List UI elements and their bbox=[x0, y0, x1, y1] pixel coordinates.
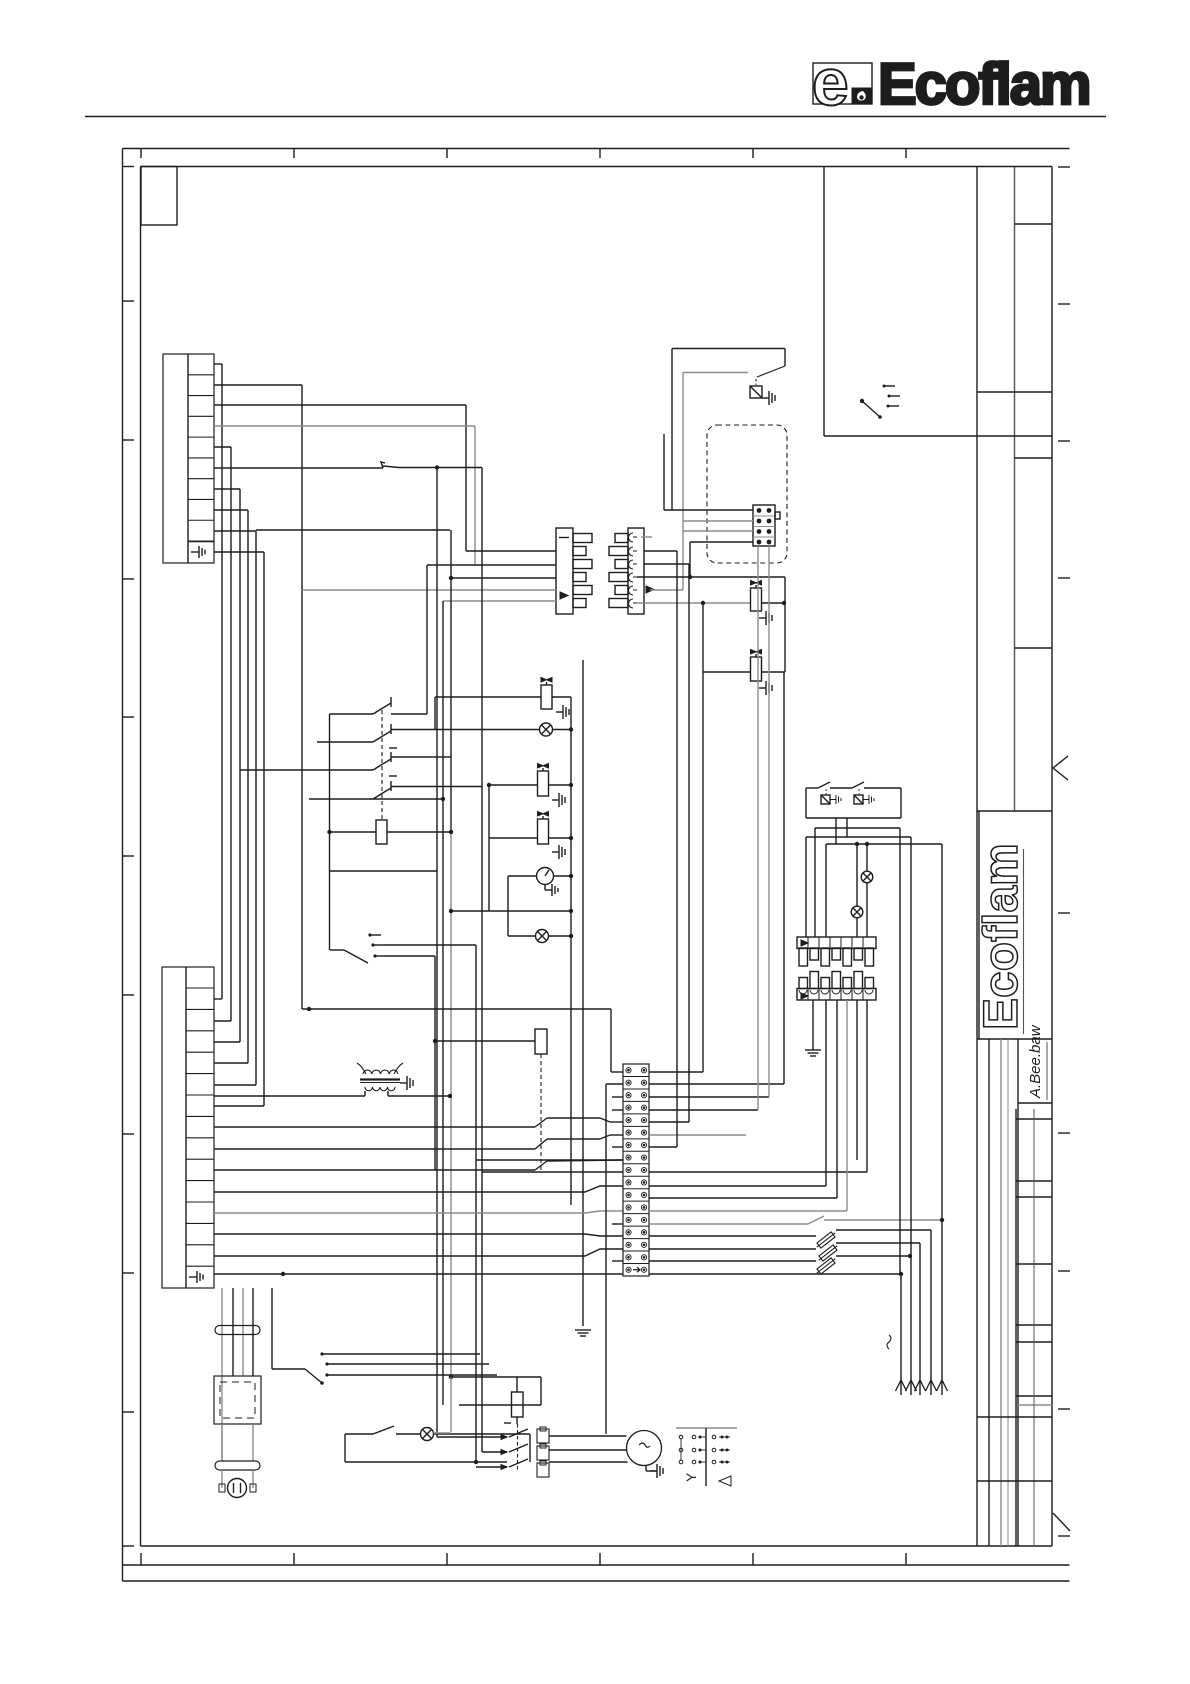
thermal element K3-2 bbox=[854, 795, 863, 804]
fuse F2 bbox=[817, 1232, 835, 1248]
wire bus g bbox=[442, 799, 444, 1405]
wire K3 stub a bbox=[835, 818, 837, 844]
contactor pole 1 bbox=[437, 1423, 528, 1440]
wire X3-5 gray bbox=[650, 589, 683, 591]
wire X3-1 stub gray bbox=[641, 536, 652, 538]
sheet arrow 5 bbox=[937, 1380, 948, 1391]
contactor pole 3 bbox=[476, 1459, 528, 1470]
frame centimetre ticks bottom bbox=[140, 1553, 142, 1565]
title block full rung b bbox=[977, 1480, 1052, 1482]
relay K1 contact 4 bbox=[309, 781, 482, 801]
sheet arrow 2 bbox=[906, 1380, 917, 1391]
wire X5-17 out bbox=[649, 1272, 903, 1276]
sheet arrow 3 bbox=[915, 1380, 926, 1391]
ground at Y5 bbox=[552, 845, 565, 859]
control box K3 bbox=[806, 788, 901, 818]
safety switch blade bbox=[757, 366, 785, 377]
wire X6 pin1 to earth bbox=[812, 1000, 814, 1050]
fuse holder F6 bbox=[537, 1444, 549, 1460]
legend selector switch S1 bbox=[860, 385, 900, 419]
wire X5-7 out bbox=[649, 551, 677, 1147]
relay K1 contact 2 bbox=[317, 724, 540, 748]
title block full rung a bbox=[977, 1416, 1052, 1418]
solenoid valve Y5 bbox=[489, 812, 573, 845]
title block cell line b bbox=[977, 391, 1052, 393]
solenoid valve Y2 bbox=[487, 764, 573, 797]
wire motor b bbox=[549, 1449, 627, 1451]
ground K3-2 bbox=[863, 795, 874, 804]
ground terminal X4-PE bbox=[189, 1271, 203, 1283]
wire down b bbox=[910, 1256, 912, 1395]
star-delta legend bbox=[676, 1428, 737, 1486]
wire X6 pin6 bbox=[866, 1000, 868, 1172]
switch blade TS bbox=[373, 1426, 394, 1434]
frame centimetre ticks right bbox=[1058, 166, 1070, 168]
switch on X5-13 gray bbox=[649, 1216, 944, 1224]
title block left rail bbox=[976, 167, 978, 1547]
wire k2 coil loop bbox=[449, 1375, 541, 1405]
wire bus a bbox=[466, 550, 556, 552]
wire T1 secondary right bbox=[388, 1095, 451, 1097]
ignition transformer T1 bbox=[357, 1063, 403, 1096]
wire X4 down b bbox=[232, 1288, 234, 1376]
wire X5-11 out bbox=[649, 1197, 837, 1199]
drawing frame outer border bbox=[123, 149, 1070, 1582]
wire X2 pin2 gray bbox=[683, 520, 753, 522]
wire X5-4 out bbox=[649, 546, 758, 1135]
wire gauge link bbox=[507, 876, 509, 936]
wire X5-12 out gray bbox=[649, 1210, 847, 1212]
svg-text:A.Bee.baw: A.Bee.baw bbox=[1027, 1024, 1044, 1099]
wire feed loop to safety switch bbox=[672, 349, 785, 511]
wire S2-c bbox=[385, 956, 437, 1170]
wire X1-PE run bbox=[214, 552, 264, 1106]
wire S2-b bbox=[383, 945, 478, 1464]
ground PE bus bbox=[575, 1330, 591, 1336]
ground at Y2 bbox=[552, 793, 565, 807]
lamp H1 bbox=[540, 723, 574, 736]
wire X4 down e bbox=[272, 1288, 305, 1369]
fuse F4 bbox=[817, 1258, 835, 1274]
wire K1 left rail bbox=[329, 714, 331, 950]
wire X4 down d bbox=[252, 1288, 254, 1376]
wire X4 row10 bbox=[214, 1186, 623, 1192]
control box Z1 bbox=[214, 1376, 261, 1424]
ground below X6 bbox=[805, 1050, 821, 1056]
switch blade K3-2 bbox=[852, 782, 864, 794]
relay K1 contact 1 bbox=[330, 697, 428, 714]
wire loop r2 bbox=[806, 837, 911, 1256]
wire X1-1 bbox=[214, 364, 222, 999]
wire bus b gray bbox=[427, 564, 556, 566]
solenoid valve Y1 bbox=[435, 678, 571, 730]
wire X2 pin1 bbox=[664, 434, 753, 510]
wire X4 down c gray bbox=[242, 1288, 244, 1376]
connector X3 plug half bbox=[556, 528, 592, 614]
wire X3-4 bbox=[637, 575, 786, 672]
title block signature box bbox=[1018, 1042, 1052, 1103]
thermostat box TS bbox=[345, 1434, 530, 1462]
wire Z1 down b gray bbox=[252, 1424, 254, 1461]
ground at T1 bbox=[400, 1076, 413, 1090]
title block cell line a bbox=[1015, 223, 1053, 225]
safety contact b2 bbox=[214, 1135, 623, 1149]
title block mid rail bbox=[1014, 167, 1016, 812]
connector X6 plug half bbox=[797, 937, 876, 966]
connector X2 8-pole bbox=[753, 505, 780, 546]
wire gray to safety switch bbox=[683, 373, 748, 591]
selector S3 bbox=[305, 1352, 497, 1384]
wire X2 pin4 bbox=[690, 542, 753, 577]
relay K1 contact 3 bbox=[240, 752, 451, 776]
wire bus d bbox=[302, 565, 556, 714]
wire X4 row11 gray bbox=[214, 1211, 623, 1213]
wire loop r3 bbox=[826, 842, 942, 1220]
terminal strip X1 bbox=[163, 354, 214, 563]
wire X6 pin5 bbox=[856, 1000, 858, 1160]
title block cell line d bbox=[1015, 647, 1053, 649]
wire Y2-Y5 link bbox=[488, 785, 490, 911]
wire X1-7 bbox=[214, 489, 240, 1042]
wire X1-5 bbox=[214, 447, 231, 1021]
ground terminal X1-PE bbox=[191, 546, 205, 558]
ground at M2 bbox=[646, 1464, 663, 1478]
switch blade K3-1 bbox=[818, 782, 830, 794]
wire X6 pin3 bbox=[836, 1000, 838, 1198]
wire bus m bbox=[570, 697, 572, 1205]
lamp H3 bbox=[861, 844, 873, 937]
wire X5-14 fused bbox=[649, 1230, 931, 1236]
wire loop r1 bbox=[815, 828, 900, 1274]
title block ladder rungs bbox=[1016, 1118, 1052, 1120]
wire down c bbox=[919, 1243, 921, 1395]
reference zone box top left bbox=[141, 167, 177, 226]
solenoid valve Y4 bbox=[703, 603, 785, 1072]
lamp H5 bbox=[421, 1428, 434, 1441]
connector X6 socket half bbox=[797, 972, 876, 1001]
wire motor c bbox=[549, 1461, 628, 1463]
fuse F3 bbox=[819, 1245, 837, 1261]
wire down a bbox=[900, 1274, 902, 1395]
wire X1-8 bbox=[214, 510, 248, 1063]
wire X1-3 bbox=[214, 405, 466, 551]
wire X3-3 bbox=[644, 563, 689, 565]
pressure gauge P1 bbox=[508, 868, 573, 885]
switch on X1-6 bbox=[214, 462, 482, 470]
wire T1 secondary left bbox=[214, 1095, 365, 1097]
wire Z1 down a gray bbox=[221, 1424, 223, 1461]
relay K2 coil bbox=[435, 1029, 547, 1054]
fuse holder F5 bbox=[537, 1427, 549, 1443]
wire bus f bbox=[481, 468, 483, 1453]
fuse holder F7 bbox=[537, 1461, 549, 1477]
ground at thermal reset bbox=[762, 391, 775, 405]
relay K4 coil bbox=[512, 1377, 524, 1424]
lamp H2 bbox=[508, 930, 573, 943]
ground K3-1 bbox=[830, 795, 841, 804]
safety contact b1 bbox=[214, 1118, 623, 1127]
lamp H4 bbox=[851, 844, 863, 937]
wire junction row bbox=[449, 909, 573, 913]
wire lamp link gray bbox=[434, 1377, 452, 1433]
wire X3-2 bbox=[644, 550, 677, 552]
wire K1 lower loop bbox=[330, 870, 438, 872]
wire X5-3 out bbox=[649, 546, 769, 1097]
svg-text:Ecoflam: Ecoflam bbox=[975, 843, 1028, 1030]
safety contact b3 bbox=[214, 1160, 623, 1170]
wire bus c bbox=[449, 576, 556, 580]
Ecoflam logo emblem box bbox=[812, 45, 872, 119]
wire K3 stub b bbox=[846, 818, 848, 837]
selector S2 bbox=[330, 933, 385, 963]
wire X5-15 fused bbox=[649, 1243, 920, 1249]
contactor K4 dashed link bbox=[517, 1424, 519, 1470]
terminal strip X4 bbox=[162, 967, 214, 1288]
terminal strip X5 bbox=[623, 1064, 649, 1276]
frame centimetre ticks top bbox=[140, 149, 142, 159]
wire X5 left stubs bbox=[612, 1097, 623, 1261]
suppressor bead upper bbox=[215, 1326, 260, 1335]
suppressor bead lower bbox=[215, 1461, 260, 1470]
wire down d bbox=[930, 1230, 932, 1395]
wire X5-9 out bbox=[482, 1171, 867, 1173]
wire X6 pin4 gray bbox=[846, 1000, 848, 1211]
fan motor M2 bbox=[627, 1431, 662, 1466]
wire X1-9 bbox=[214, 530, 450, 1085]
burner motor M1 bbox=[219, 1479, 256, 1498]
solenoid valve Y3 bbox=[751, 581, 786, 612]
wire down e bbox=[941, 1220, 943, 1395]
wire X5-1 bbox=[302, 1007, 703, 1072]
title block cell line c bbox=[1015, 457, 1053, 459]
wire bus h bbox=[436, 468, 438, 1438]
wire X5-5 out bbox=[649, 564, 689, 1122]
relay K1 coil bbox=[327, 820, 453, 844]
wire X5-2 bbox=[606, 672, 784, 1434]
contactor pole 2 bbox=[482, 1444, 528, 1455]
svg-text:Ecoflam: Ecoflam bbox=[878, 52, 1090, 117]
title block right rail bbox=[1051, 167, 1053, 1547]
wire to motor b bbox=[252, 1470, 254, 1488]
wire PE bus bbox=[582, 660, 584, 1326]
wire X5-16 fused bbox=[649, 1254, 912, 1261]
phase mark bbox=[887, 1335, 891, 1349]
wire to motor a bbox=[221, 1470, 223, 1488]
svg-text:Y: Y bbox=[683, 1472, 699, 1482]
thermal element K3-1 bbox=[821, 795, 830, 804]
title block logo cell bbox=[977, 811, 1052, 1039]
ground at Y3 bbox=[759, 611, 772, 625]
wire motor a bbox=[549, 1435, 627, 1437]
wire X2 pin3 gray bbox=[683, 530, 753, 532]
wire X1-4 gray bbox=[214, 426, 475, 565]
wire X1-2 bbox=[214, 385, 302, 1009]
sheet arrow 4 bbox=[926, 1380, 937, 1391]
relay K1 dashed link bbox=[381, 710, 383, 820]
frame centimetre ticks left bbox=[123, 166, 135, 168]
wire X6 pin2 bbox=[825, 1000, 827, 1186]
wire bus i gray bbox=[448, 530, 453, 1379]
ground at Y1 bbox=[556, 705, 569, 719]
drawing frame inner border bbox=[141, 167, 1053, 1547]
wire X4-PE long bbox=[214, 1272, 623, 1276]
safety contact chain dashed link bbox=[540, 1054, 542, 1170]
frame corner diagonal bottom right bbox=[1053, 1513, 1070, 1531]
ground at Y4 bbox=[759, 681, 772, 695]
rule under logo bbox=[85, 116, 1106, 118]
wire X4 down a gray bbox=[221, 1288, 223, 1461]
terminal X5 arrow bbox=[633, 1267, 640, 1272]
title block signature rails bbox=[989, 1039, 1018, 1546]
wire X3-6 gray bbox=[637, 601, 751, 605]
svg-text:e: e bbox=[812, 45, 849, 119]
title block top edge bbox=[977, 166, 1052, 168]
connector X3 socket half bbox=[609, 528, 654, 614]
wire X4 row13 bbox=[214, 1249, 623, 1256]
frame centre arrow right bbox=[1053, 756, 1068, 780]
wire X4 row12 bbox=[214, 1234, 623, 1236]
ground at P1 bbox=[545, 884, 558, 896]
sheet arrow 1 bbox=[896, 1380, 907, 1391]
dashed enclosure burner control bbox=[707, 425, 787, 563]
legend box bbox=[824, 167, 1052, 437]
wire X5-10 out bbox=[476, 1160, 826, 1186]
thermal reset box F1 bbox=[750, 379, 762, 398]
wire bus e bbox=[443, 601, 556, 799]
